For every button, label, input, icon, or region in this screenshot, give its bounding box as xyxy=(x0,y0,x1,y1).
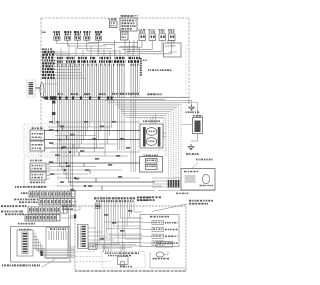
label A/C compressor xyxy=(196,159,213,161)
wires from C280 xyxy=(88,228,126,248)
label left side of dash xyxy=(189,200,213,205)
pin column of control connector xyxy=(140,58,147,76)
fuse F4 FUSE 21 20A xyxy=(84,31,91,40)
switch S4 mode xyxy=(30,172,46,180)
splice junctions on bus xyxy=(44,96,113,99)
A/C cycling switch xyxy=(140,155,163,172)
wire code labels on bus xyxy=(58,93,162,95)
harness connector detail box xyxy=(11,227,71,263)
wire pair C250 to connector face xyxy=(36,87,41,88)
label below strips xyxy=(18,223,35,225)
connector 18B small box xyxy=(89,244,98,250)
A/C-heater control connector pin labels xyxy=(57,57,140,66)
A/C compressor clutch box xyxy=(181,169,215,191)
frame right edge xyxy=(188,18,190,104)
bottom pin band xyxy=(94,197,135,202)
caption harness connectors xyxy=(2,264,40,266)
branch wires to left/right components xyxy=(45,121,163,190)
left block bottom wire bundle to bus xyxy=(44,79,58,100)
wire bundle into compressor xyxy=(152,178,181,188)
dashed return wires lower left xyxy=(70,252,110,262)
left dashed enclosure (panel lamps) xyxy=(24,124,60,155)
frame bottom bus xyxy=(42,98,189,100)
A/C-heater function control dashed box xyxy=(140,45,187,98)
wires from mode switches xyxy=(46,165,50,179)
fuse F1 FUSE 4 15A xyxy=(54,31,61,40)
wire staircase from fuses to pin band xyxy=(45,40,172,57)
wire rows left-block to bundle xyxy=(56,52,86,78)
caption row 3 xyxy=(1,205,26,207)
fuse strip row 1 xyxy=(21,191,75,197)
switch S3 mode xyxy=(30,163,46,171)
connector C270 (left edge block) xyxy=(42,48,66,79)
switch S2 xyxy=(30,141,45,151)
leader to left-side label xyxy=(152,204,188,212)
wires outside box left edge xyxy=(69,204,76,249)
ground G201 xyxy=(186,144,199,155)
wires crossing above servo box xyxy=(88,243,140,248)
title text right of pin band xyxy=(137,196,161,201)
in-line connector C250 dashed box xyxy=(27,80,36,97)
wires bundle to module xyxy=(104,222,142,242)
circuit breaker CB1 xyxy=(121,32,129,40)
connector C291 detail xyxy=(46,228,68,259)
label below cycling switch xyxy=(138,193,189,202)
harness vertical wire bundle xyxy=(58,64,138,98)
wire strips to bottom box xyxy=(61,194,80,218)
junction splice on box left edge xyxy=(70,215,76,219)
sub-box relay module xyxy=(140,215,179,247)
bottom box heavy bottom edge xyxy=(75,270,186,272)
wire resistor to ground xyxy=(191,134,198,142)
labels right of strips xyxy=(62,206,76,210)
aspirator motor xyxy=(153,242,173,260)
ground G200 xyxy=(186,105,200,114)
caption row 2 xyxy=(14,199,38,203)
bundle group to blower area xyxy=(118,99,125,150)
connector C290 detail xyxy=(17,229,33,256)
leader caption to box xyxy=(42,260,55,268)
module row 2 xyxy=(142,227,178,231)
fuse F2 FUSE 10 15A xyxy=(64,31,71,40)
leader to A/C compressor xyxy=(192,163,198,169)
fuse F5 FUSE 27 30A xyxy=(95,31,102,40)
label hot-at-all-times xyxy=(120,15,139,18)
dashed servo box xyxy=(102,252,145,269)
frame left edge xyxy=(40,18,42,157)
relay K2 A/C wide-open-throttle relay xyxy=(164,40,182,57)
wire aspirator loop xyxy=(150,251,186,268)
fuse F7 xyxy=(149,29,156,40)
connector C280 tall block xyxy=(78,225,89,249)
module row 3 xyxy=(142,234,178,238)
wire fan to right side xyxy=(105,100,198,186)
frame top edge xyxy=(41,17,189,19)
connector face oval xyxy=(40,83,44,97)
wire code labels scattered xyxy=(49,121,132,240)
caption row 4 xyxy=(1,211,24,216)
fuse F3 FUSE 16 10A xyxy=(74,31,81,40)
bottom vertical bundle with bends to module xyxy=(95,202,142,250)
servo motor symbol xyxy=(118,257,133,268)
wires U-turn into vacuum box top xyxy=(151,114,156,124)
caption power source connectors xyxy=(15,186,47,188)
label on frame left edge xyxy=(42,32,46,34)
label below mode switches xyxy=(30,182,45,184)
vacuum motor assembly xyxy=(140,120,163,148)
wires between detail connectors xyxy=(33,234,75,258)
fuse F8 xyxy=(159,29,166,40)
wires housing down to enclosure xyxy=(52,100,55,125)
fuse F6 xyxy=(139,29,146,40)
left side wiring box xyxy=(75,206,186,271)
fuse strip row 3 xyxy=(28,207,67,213)
label mode switch xyxy=(30,160,42,162)
label A/C-heater function control xyxy=(148,69,171,71)
bundle group to cycling switch xyxy=(131,99,135,172)
fuse F9 xyxy=(168,29,175,40)
connector 18A small box xyxy=(96,204,101,209)
right dashed enclosure (mode switches) xyxy=(24,157,58,186)
wire below compressor xyxy=(158,190,215,192)
fuse strip row 4 xyxy=(25,215,60,222)
harness bundle below bus xyxy=(58,99,114,190)
blower motor resistor xyxy=(193,115,203,134)
switch S1 panel dimmer xyxy=(30,127,45,140)
vacuum motor assembly dashed enclosure xyxy=(139,119,166,151)
ignition switch SW1 xyxy=(120,15,137,31)
fuse strip row 2 xyxy=(39,199,75,206)
relay K1 blower relay xyxy=(109,18,118,27)
wires into servo box xyxy=(104,243,125,257)
module row 1 xyxy=(142,221,178,225)
module row 4 xyxy=(142,241,178,245)
